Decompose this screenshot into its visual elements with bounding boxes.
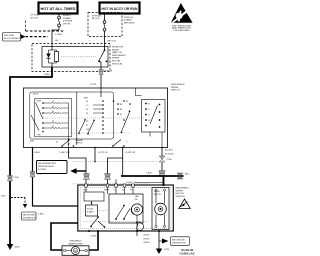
svg-text:DISTRIBUTION: DISTRIBUTION bbox=[172, 242, 186, 244]
svg-text:(RH SIDE): (RH SIDE) bbox=[124, 22, 135, 24]
small ESD triangle symbol bbox=[179, 199, 190, 209]
svg-text:DISTRIBUTION: DISTRIBUTION bbox=[23, 218, 37, 220]
dotted run mid bbox=[72, 161, 158, 163]
svg-text:MIST: MIST bbox=[84, 97, 88, 99]
ESD logo caption bbox=[172, 25, 192, 32]
svg-text:MOTOR: MOTOR bbox=[154, 194, 161, 196]
svg-text:.5 ORG: .5 ORG bbox=[55, 34, 63, 36]
label windshield wiper switch bbox=[171, 84, 185, 92]
svg-text:.8 PPL: .8 PPL bbox=[90, 84, 97, 86]
label wiper motor bbox=[154, 191, 161, 196]
module pin labels bbox=[83, 190, 133, 192]
svg-text:5MPH: 5MPH bbox=[104, 190, 110, 192]
washer pump return wire (thick) bbox=[89, 231, 98, 250]
svg-text:BOARD: BOARD bbox=[87, 211, 94, 214]
svg-text:.8 BLK: .8 BLK bbox=[44, 74, 51, 76]
svg-text:BLK: BLK bbox=[185, 174, 190, 176]
svg-text:SEE GROUND: SEE GROUND bbox=[23, 215, 36, 217]
washer pump motor bbox=[64, 247, 88, 255]
svg-text:P: P bbox=[127, 142, 128, 144]
stub wires to column A bbox=[93, 105, 103, 113]
svg-text:SWITCH: SWITCH bbox=[76, 143, 83, 145]
mid-right labels bbox=[120, 101, 128, 126]
stub wire into module bbox=[115, 180, 117, 185]
resistor bus vertical bbox=[68, 103, 70, 148]
stub wire left of it bbox=[136, 231, 138, 236]
module dotted inner border bbox=[80, 187, 171, 228]
svg-text:1 BLK: 1 BLK bbox=[146, 173, 152, 175]
wiper arm L bbox=[36, 103, 44, 120]
wire switch out 5 (right, to C100) bbox=[161, 148, 163, 177]
svg-text:BLK: BLK bbox=[2, 196, 7, 198]
svg-text:FUSE 5: FUSE 5 bbox=[63, 15, 71, 17]
svg-text:CADILLAC: CADILLAC bbox=[180, 252, 196, 256]
resistor R3 bbox=[43, 112, 69, 114]
svg-text:CAM: CAM bbox=[135, 195, 139, 198]
node column B bbox=[113, 100, 131, 121]
label high/low relay bbox=[112, 47, 126, 66]
svg-text:W: W bbox=[148, 103, 150, 105]
connector on wire 1 bbox=[30, 172, 43, 178]
label windshield washer pump bbox=[68, 241, 83, 246]
label WPR fuse bbox=[124, 14, 135, 24]
heavy dashed callout line bbox=[26, 36, 49, 38]
common feed wire into switch bbox=[100, 88, 102, 97]
dotted link coil to contact bbox=[61, 56, 96, 58]
svg-text:SW: SW bbox=[135, 199, 138, 201]
svg-text:.5 BLK: .5 BLK bbox=[34, 152, 41, 154]
dotted internal link bbox=[83, 221, 148, 223]
svg-text:P3: P3 bbox=[86, 113, 88, 115]
switch arm M1 bbox=[78, 119, 86, 134]
internal wires park box bbox=[86, 187, 133, 194]
svg-text:HOT AT ALL TIMES: HOT AT ALL TIMES bbox=[41, 7, 77, 11]
dotted run lower bbox=[72, 183, 150, 185]
connector on wire 2 bbox=[84, 174, 90, 180]
switch inner rounded outline bbox=[30, 92, 114, 139]
connector on PPL wire bbox=[99, 70, 103, 75]
module internal arms bbox=[90, 216, 105, 228]
left long vertical bbox=[76, 92, 78, 145]
svg-text:WASHER: WASHER bbox=[76, 139, 84, 142]
label I/P fuse block (left) bbox=[31, 15, 41, 20]
heavy ground bus bbox=[121, 158, 184, 186]
svg-text:S230: S230 bbox=[164, 249, 170, 251]
relay K1 dashed outline bbox=[32, 44, 110, 72]
resistor R4 bbox=[43, 122, 69, 124]
svg-text:.8 BLK: .8 BLK bbox=[143, 242, 150, 244]
svg-text:GRY 118: GRY 118 bbox=[107, 41, 117, 43]
switch arm M3 bbox=[121, 110, 131, 133]
svg-text:MODULE: MODULE bbox=[176, 196, 186, 198]
svg-text:SYSTEM: SYSTEM bbox=[38, 169, 46, 171]
wiper switch box S1 bbox=[24, 88, 168, 148]
svg-text:OF I/P): OF I/P) bbox=[63, 23, 70, 25]
label A / B pins bbox=[165, 148, 174, 155]
cam wheel bbox=[131, 204, 142, 215]
wire switch out 3 (to note) bbox=[94, 148, 96, 162]
svg-text:MIST: MIST bbox=[30, 140, 34, 142]
connector on wire 4 bbox=[105, 174, 111, 180]
motor M1 bbox=[155, 203, 167, 215]
washer pump feed wire (thick) bbox=[51, 223, 78, 250]
wire fuse A to relay (ORG) bbox=[52, 27, 59, 47]
bus node dots bbox=[68, 139, 70, 145]
relay coil bbox=[49, 47, 59, 68]
wire fuse B to relay (GRY) bbox=[104, 31, 106, 47]
svg-text:C100: C100 bbox=[167, 159, 173, 161]
fuse block B dashed enclosure bbox=[88, 13, 122, 37]
svg-text:HOT IN ACCY OR RUN: HOT IN ACCY OR RUN bbox=[102, 7, 139, 11]
wiper motor module box bbox=[78, 185, 174, 231]
svg-text:HIGH/LOW: HIGH/LOW bbox=[112, 47, 124, 49]
washer switch contact right bbox=[112, 140, 127, 147]
svg-text:SEE INTERMITTENT: SEE INTERMITTENT bbox=[38, 163, 57, 165]
wire switch out 4 bbox=[108, 148, 123, 186]
node column A bbox=[102, 100, 104, 134]
svg-text:A 1 BLK: A 1 BLK bbox=[165, 148, 173, 151]
ground symbol right bbox=[156, 249, 170, 255]
dotted linkage line (mode) bbox=[43, 117, 145, 119]
svg-text:P2: P2 bbox=[86, 121, 88, 123]
middle labels bbox=[84, 97, 89, 131]
svg-text:B1: B1 bbox=[126, 101, 128, 103]
dotted pulse-park link bbox=[98, 210, 110, 212]
svg-text:P4: P4 bbox=[86, 109, 88, 111]
module logic box bbox=[84, 192, 104, 201]
wire switch out 1 (left, BLK) bbox=[33, 148, 78, 207]
bowtie connector on bus bbox=[177, 173, 190, 179]
svg-text:S163: S163 bbox=[15, 247, 21, 249]
svg-text:25 AMP: 25 AMP bbox=[63, 17, 71, 20]
svg-text:1 BLK: 1 BLK bbox=[91, 236, 97, 238]
svg-text:(PART OF: (PART OF bbox=[112, 51, 123, 54]
wire module to ground (right) bbox=[158, 231, 160, 249]
svg-text:FUSE 23: FUSE 23 bbox=[124, 17, 134, 19]
node column left bbox=[42, 102, 44, 132]
resistor R2 bbox=[43, 107, 69, 109]
svg-text:MODULE): MODULE) bbox=[112, 63, 122, 65]
svg-text:B5: B5 bbox=[120, 104, 122, 106]
wire relay coil to ground bus (thick BLK) bbox=[10, 67, 53, 245]
wire logic to pulse board bbox=[91, 201, 93, 205]
fuse block A dashed enclosure bbox=[26, 20, 65, 31]
svg-text:WINDSHIELD: WINDSHIELD bbox=[70, 241, 83, 243]
svg-text:WPR: WPR bbox=[124, 14, 130, 16]
labels bottom right wires bbox=[143, 235, 150, 245]
svg-text:SEE FUSE: SEE FUSE bbox=[4, 35, 15, 37]
svg-text:WIPER: WIPER bbox=[176, 190, 184, 192]
svg-text:SEE GROUND: SEE GROUND bbox=[172, 239, 185, 241]
callout SEE FUSE BLOCK DETAILS bbox=[3, 33, 26, 42]
crank blob bbox=[136, 222, 144, 231]
svg-text:B .8 BLK: B .8 BLK bbox=[165, 153, 174, 155]
svg-text:HIGH: HIGH bbox=[37, 101, 42, 103]
pulse board box bbox=[86, 205, 98, 216]
connector on right wire lower bbox=[146, 171, 165, 177]
washer pump box bbox=[62, 246, 89, 256]
row labels L bbox=[52, 101, 55, 128]
thin link line lower bbox=[134, 181, 164, 183]
connector C100 bowtie on right wire bbox=[159, 156, 173, 162]
relay contact bbox=[98, 47, 107, 68]
svg-text:.8 PPL 92: .8 PPL 92 bbox=[98, 152, 108, 154]
svg-text:W: W bbox=[148, 120, 150, 122]
svg-text:MODE: MODE bbox=[33, 93, 39, 95]
svg-text:(LH SIDE: (LH SIDE bbox=[63, 21, 73, 23]
park switch arms bbox=[115, 205, 130, 220]
park switch box bbox=[109, 194, 143, 223]
svg-text:.8 PPL 91: .8 PPL 91 bbox=[103, 71, 113, 73]
svg-text:WINDSHIELD: WINDSHIELD bbox=[171, 84, 185, 86]
switch inner box R (washer) bbox=[142, 100, 166, 133]
power label HOT AT ALL TIMES bbox=[39, 3, 78, 14]
doc number bbox=[179, 248, 197, 256]
switch inner box L (resistor network) bbox=[35, 98, 72, 136]
svg-text:WINDSHIELD: WINDSHIELD bbox=[112, 55, 126, 57]
svg-text:MOD: MOD bbox=[83, 190, 88, 192]
svg-text:SWITCH: SWITCH bbox=[171, 90, 180, 92]
svg-text:I/P FUSE: I/P FUSE bbox=[31, 15, 41, 17]
svg-text:WIPER W/ DELAY: WIPER W/ DELAY bbox=[38, 165, 54, 168]
relay K1 inner box bbox=[42, 47, 108, 68]
svg-text:P1: P1 bbox=[86, 125, 88, 127]
label I/P fuse block (right) bbox=[92, 15, 102, 20]
svg-text:.8 GRY 93: .8 GRY 93 bbox=[125, 152, 136, 154]
svg-text:PULSE: PULSE bbox=[87, 209, 94, 211]
wiper motor box bbox=[152, 188, 169, 230]
svg-text:WINDSHIELD: WINDSHIELD bbox=[176, 188, 190, 190]
resistor R5 bbox=[43, 127, 69, 129]
ground distribution branch (dashed) bbox=[11, 198, 37, 221]
svg-text:.8 BLK: .8 BLK bbox=[143, 238, 150, 240]
svg-text:WIPER: WIPER bbox=[112, 58, 120, 60]
washer arm bbox=[150, 106, 158, 125]
box R exit stubs bbox=[150, 132, 162, 148]
svg-text:M: M bbox=[74, 249, 76, 253]
svg-text:.8 BLK: .8 BLK bbox=[143, 235, 150, 237]
notch line top bbox=[135, 88, 141, 96]
wire switch out 2 bbox=[69, 148, 87, 186]
fuse WPR bbox=[103, 14, 106, 32]
relay clamp diode bbox=[46, 50, 50, 63]
wire relay contact down (PPL) bbox=[100, 67, 102, 88]
svg-text:MOTOR: MOTOR bbox=[112, 61, 121, 63]
svg-text:BLOCK: BLOCK bbox=[92, 18, 100, 20]
fuse F5 bbox=[58, 14, 61, 27]
switch arm M2 bbox=[87, 120, 95, 135]
label washer switch bbox=[76, 139, 84, 145]
ground symbol G100 (left) bbox=[7, 244, 21, 250]
svg-text:BLOCK: BLOCK bbox=[31, 17, 39, 19]
label cam switch bbox=[135, 195, 139, 201]
exit node dots bbox=[32, 147, 163, 149]
label windshield wiper motor module bbox=[176, 188, 190, 198]
svg-text:1 BLK: 1 BLK bbox=[38, 214, 44, 216]
svg-text:PROCEDURES: PROCEDURES bbox=[174, 30, 191, 32]
power label HOT IN RUN bbox=[100, 3, 140, 14]
connector C1 on left ground wire bbox=[8, 176, 20, 182]
svg-text:WASHER PUMP: WASHER PUMP bbox=[68, 243, 83, 246]
ground distribution callout (right) bbox=[159, 237, 190, 246]
svg-text:MOTOR: MOTOR bbox=[176, 193, 185, 195]
label fuse 5 / 25 amp bbox=[63, 15, 73, 25]
module top terminals bbox=[85, 184, 135, 187]
note arrow SEE WIPER/WASHER bbox=[37, 161, 87, 174]
wire cam to module bottom bbox=[136, 215, 138, 231]
svg-text:B3: B3 bbox=[120, 109, 122, 111]
ESD logo triangle bbox=[171, 3, 193, 23]
motor terminals bbox=[155, 189, 166, 228]
washer labels bbox=[148, 103, 150, 122]
svg-text:B2: B2 bbox=[120, 114, 122, 116]
wiper arm L2 bbox=[31, 115, 39, 131]
svg-text:BLOCK DETAILS: BLOCK DETAILS bbox=[4, 37, 20, 40]
svg-text:WIPER: WIPER bbox=[171, 87, 179, 89]
svg-text:C100: C100 bbox=[14, 177, 20, 179]
washer switch contact left bbox=[56, 140, 74, 147]
svg-text:.8 BLK: .8 BLK bbox=[126, 182, 133, 184]
svg-text:25 AMP: 25 AMP bbox=[124, 19, 132, 22]
dotted linkage line lower bbox=[70, 132, 130, 134]
module bottom terminals bbox=[88, 230, 160, 232]
washer nodes bbox=[145, 103, 160, 128]
svg-text:RELAY: RELAY bbox=[112, 48, 120, 51]
resistor R1 bbox=[43, 102, 69, 104]
